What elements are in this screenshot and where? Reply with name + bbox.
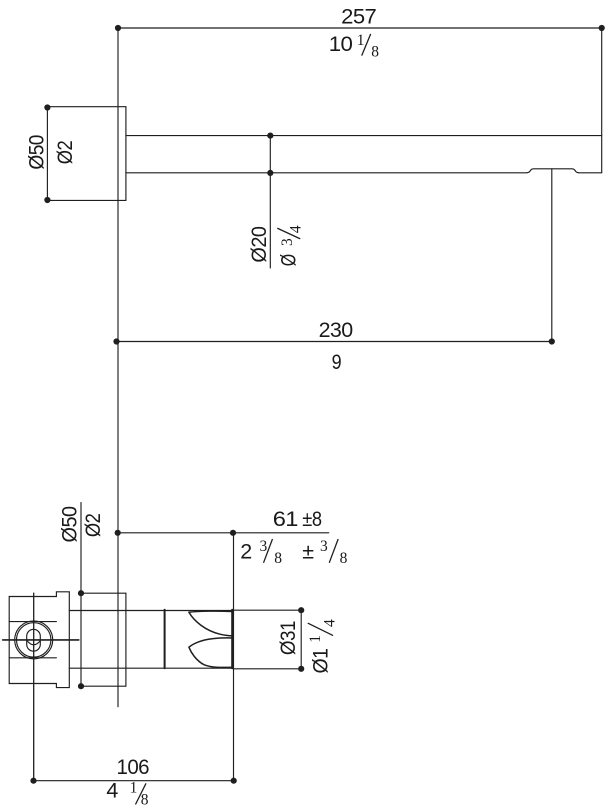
handle band top — [9, 621, 56, 623]
svg-text:8: 8 — [274, 550, 282, 567]
wall flange bottom: top edge — [81, 592, 126, 594]
svg-text:Ø31: Ø31 — [276, 621, 300, 655]
valve body bottom edge — [69, 667, 233, 669]
wall flange bottom: bottom edge — [81, 685, 126, 687]
handle smile arc — [27, 641, 40, 645]
wall flange top: bottom edge + Ø50 extension — [47, 199, 126, 201]
svg-text:4: 4 — [321, 619, 338, 627]
label Ø1 1/4 (rotated) — [307, 619, 339, 674]
svg-text:230: 230 — [319, 318, 354, 342]
svg-text:Ø2: Ø2 — [53, 141, 77, 165]
spout bottom edge with aerator recess — [126, 169, 602, 173]
dimension Ø31: bottom extension — [233, 668, 301, 670]
svg-text:8: 8 — [340, 550, 348, 567]
label 4 1/8 — [106, 779, 148, 809]
left extension line — [117, 28, 119, 707]
dimension Ø31 vertical line — [298, 607, 304, 672]
wall flange top: right face — [125, 107, 127, 201]
extension line right (61/106) — [233, 533, 235, 781]
svg-text:3: 3 — [320, 538, 328, 555]
handle crosshair vertical + extension to 106 dim — [33, 593, 35, 781]
label 10 1/8 — [329, 32, 380, 61]
dimension 61 ±8 line — [115, 530, 329, 536]
svg-text:1: 1 — [307, 635, 324, 643]
right extension line / spout tip edge — [601, 28, 603, 173]
svg-text:4: 4 — [288, 225, 305, 233]
handle capsule — [27, 629, 41, 651]
cartridge left edge — [164, 610, 166, 668]
label 2 3/8 ± 3/8 — [240, 538, 347, 567]
dimension 257 line — [115, 25, 605, 31]
svg-text:1: 1 — [357, 32, 365, 49]
svg-text:9: 9 — [332, 350, 342, 374]
svg-text:Ø2: Ø2 — [81, 514, 105, 538]
label Ø 3/4 (rotated) — [277, 225, 305, 266]
svg-text:10: 10 — [329, 32, 353, 56]
spout top edge — [126, 135, 602, 137]
svg-text:Ø50: Ø50 — [25, 135, 49, 170]
cartridge spline petal top — [189, 611, 232, 636]
handle band bottom — [9, 657, 56, 659]
extension from aerator down to 230 dim — [551, 169, 553, 342]
svg-text:±8: ±8 — [302, 507, 322, 531]
handle outline — [9, 592, 69, 688]
svg-text:Ø20: Ø20 — [247, 226, 271, 263]
svg-text:3: 3 — [260, 538, 268, 555]
cartridge spline petal bottom — [189, 638, 232, 668]
svg-text:8: 8 — [371, 43, 379, 60]
dimension Ø31: top extension — [233, 609, 301, 611]
dimension 230 line — [113, 338, 555, 344]
svg-text:257: 257 — [341, 5, 376, 29]
wall flange bottom: right face — [125, 593, 127, 686]
dimension Ø50 top vertical line — [44, 104, 50, 203]
svg-text:3: 3 — [279, 238, 296, 246]
handle outer circle — [15, 621, 53, 659]
dimension 106 line — [30, 778, 236, 784]
fraction slashes of 2 3/8 ± 3/8 — [264, 540, 273, 563]
fraction slash of 10 1/8 — [362, 34, 371, 55]
svg-text:Ø: Ø — [277, 254, 301, 266]
svg-text:Ø50: Ø50 — [57, 506, 81, 543]
svg-text:8: 8 — [141, 792, 149, 809]
svg-text:4: 4 — [106, 779, 118, 803]
fraction slash of 4 1/8 — [136, 784, 146, 804]
svg-text:106: 106 — [117, 755, 150, 779]
dimension Ø50 bottom label line — [78, 503, 84, 690]
svg-text:1: 1 — [130, 779, 138, 796]
svg-text:2: 2 — [240, 539, 251, 563]
svg-text:Ø1: Ø1 — [308, 649, 332, 674]
handle inner circle — [17, 623, 51, 657]
cartridge right edge — [231, 610, 233, 668]
handle crosshair horizontal — [3, 639, 79, 641]
svg-text:±: ± — [302, 539, 314, 563]
dimension Ø20 vertical line — [267, 133, 273, 269]
wall flange top: top edge + Ø50 extension — [47, 106, 126, 108]
svg-text:61: 61 — [273, 507, 298, 531]
valve body top edge — [69, 610, 233, 612]
